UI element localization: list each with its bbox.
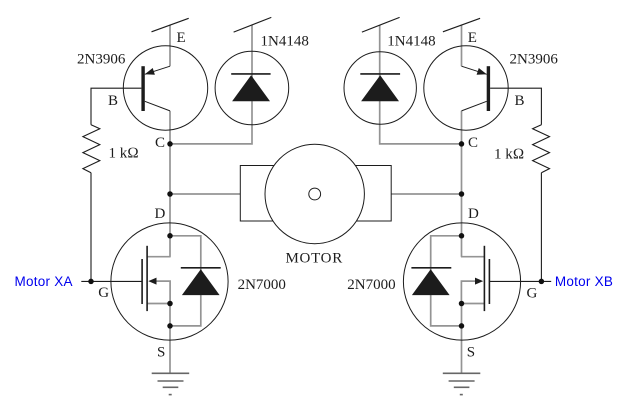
transistor Q2 emitter arrow (477, 68, 487, 75)
node M1 source-body dot (167, 301, 173, 307)
svg-text:2N3906: 2N3906 (77, 51, 126, 67)
transistor Q2 emitter line (462, 66, 487, 74)
MOSFET M2 body-diode cathode bar (411, 267, 451, 269)
svg-text:1N4148: 1N4148 (387, 34, 435, 50)
motor terminal block right (354, 166, 392, 222)
wire M2 body stub (461, 281, 475, 303)
transistor Q1 emitter arrow (145, 68, 155, 75)
node C right dot (459, 141, 465, 147)
wire collector net right (Q2 C to M2 drain) (461, 111, 463, 257)
MOSFET M1 channel line (146, 246, 148, 311)
resistor R2 1k zigzag (533, 125, 550, 173)
node motor left dot (167, 191, 173, 197)
MOSFET M2 2N7000 circle (403, 223, 520, 340)
node M2 drain-diode dot (459, 233, 465, 239)
wire M2 source to ground (461, 304, 463, 374)
MOSFET M1 body-diode triangle (182, 269, 220, 295)
svg-text:2N7000: 2N7000 (238, 277, 286, 293)
diode D1 1N4148 circle (215, 51, 289, 125)
wire M2 gate to Motor XB (489, 280, 551, 282)
MOSFET M1 2N7000 circle (111, 223, 228, 340)
wire M2 drain stub (461, 256, 485, 258)
svg-text:Motor XA: Motor XA (15, 274, 73, 289)
wire E net left (supply to Q1 emitter) (169, 25, 171, 66)
svg-text:D: D (155, 206, 166, 222)
svg-text:C: C (468, 135, 478, 151)
ground left (152, 373, 190, 394)
svg-text:C: C (155, 135, 165, 151)
wire Q1 base (91, 88, 141, 125)
power rail slash right diode (362, 17, 400, 32)
transistor Q1 base bar (141, 66, 144, 111)
svg-text:S: S (157, 345, 165, 361)
svg-text:D: D (468, 206, 479, 222)
base net and resistor R1 left (81, 88, 142, 281)
ground right (443, 373, 481, 394)
motor terminal block left (240, 166, 278, 222)
node C left dot (167, 141, 173, 147)
wire M1 source to ground (169, 304, 171, 374)
svg-text:2N3906: 2N3906 (510, 51, 559, 67)
wire motor left run (170, 193, 240, 195)
motor body circle (265, 144, 364, 243)
wire motor right run (391, 193, 461, 195)
wire M1 drain stub (147, 256, 171, 258)
wire R1 lower lead (90, 173, 92, 282)
power rail slash left diode (234, 17, 272, 32)
node M2 source-diode dot (459, 323, 465, 329)
motor shaft circle (309, 188, 321, 200)
svg-text:E: E (177, 30, 186, 46)
diode D1 cathode bar (231, 73, 270, 75)
transistor Q2 base bar (487, 66, 490, 111)
wire Motor XA to M1 gate (81, 280, 142, 282)
node M1 drain-diode dot (167, 233, 173, 239)
wire M1 body stub (156, 281, 170, 303)
svg-text:1N4148: 1N4148 (261, 34, 309, 50)
power rail slash left PNP (152, 18, 189, 32)
wire M1 source stub (147, 303, 171, 305)
node gate left dot (88, 279, 94, 285)
MOSFET M2 gate line (488, 259, 490, 304)
wire M2 body-diode branch (431, 236, 462, 326)
node M2 source-body dot (459, 301, 465, 307)
diode D2 triangle (361, 75, 399, 101)
MOSFET M2 body-diode triangle (412, 269, 450, 295)
wire collector net left (Q1 C to M1 drain) (169, 111, 171, 257)
svg-text:G: G (527, 286, 538, 302)
svg-text:Motor XB: Motor XB (555, 274, 613, 289)
transistor Q2 collector line (462, 101, 487, 111)
wire M1 body-diode branch (170, 236, 201, 326)
wire node C left to diode D1 (170, 25, 252, 144)
svg-text:S: S (467, 345, 475, 361)
diode D2 1N4148 circle (344, 52, 416, 124)
svg-text:MOTOR: MOTOR (286, 250, 343, 266)
node motor right dot (459, 191, 465, 197)
svg-text:1 kΩ: 1 kΩ (109, 145, 139, 161)
diode D2 cathode bar (360, 73, 400, 75)
svg-text:2N7000: 2N7000 (347, 277, 395, 293)
transistor Q2 2N3906 circle (424, 46, 508, 130)
resistor R1 1k zigzag (83, 125, 100, 173)
MOSFET M1 body-diode cathode bar (181, 267, 221, 269)
wire M2 source stub (461, 303, 485, 305)
transistor Q1 collector line (145, 101, 170, 111)
node M1 source-diode dot (167, 323, 173, 329)
base net and resistor R2 right (489, 88, 551, 281)
svg-text:B: B (108, 93, 118, 109)
MOSFET M2 body arrow (475, 278, 483, 285)
transistor Q1 emitter line (145, 66, 170, 74)
wire R2 lower lead (540, 173, 542, 282)
wire node C right to diode D2 (380, 25, 462, 144)
diode D1 triangle (232, 75, 270, 101)
MOSFET M2 channel line (483, 246, 485, 311)
MOSFET M1 body arrow (148, 278, 156, 285)
MOSFET M1 gate line (141, 259, 143, 304)
node gate right dot (539, 279, 545, 285)
svg-text:G: G (98, 285, 109, 301)
svg-text:B: B (515, 93, 525, 109)
wire E net right (supply to Q2 emitter) (461, 25, 463, 66)
transistor Q1 2N3906 circle (123, 46, 207, 130)
wire Q2 base (490, 88, 541, 125)
svg-text:E: E (468, 30, 477, 46)
power rail slash right PNP (443, 18, 480, 32)
svg-text:1 kΩ: 1 kΩ (494, 146, 524, 162)
